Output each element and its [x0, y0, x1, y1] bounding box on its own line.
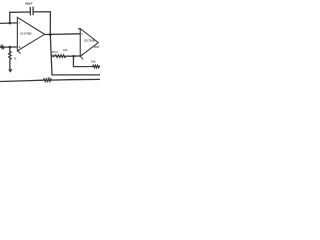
- svg-text:680pF: 680pF: [25, 1, 32, 5]
- svg-text:1/2 LT1008: 1/2 LT1008: [20, 31, 31, 35]
- svg-text:1k: 1k: [14, 56, 17, 60]
- svg-text:1/2 LT1008: 1/2 LT1008: [84, 38, 95, 42]
- svg-text:10k: 10k: [91, 60, 96, 64]
- svg-text:10k: 10k: [63, 48, 68, 52]
- svg-text:VOUT: VOUT: [94, 45, 100, 49]
- svg-text:VIN 2: VIN 2: [50, 51, 58, 54]
